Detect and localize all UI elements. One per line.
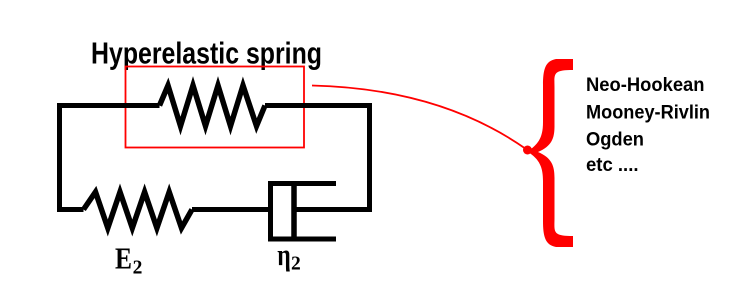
svg-text:E: E (115, 241, 132, 276)
svg-text:2: 2 (133, 257, 143, 278)
svg-text:etc ....: etc .... (586, 154, 639, 176)
svg-text:Mooney-Rivlin: Mooney-Rivlin (586, 101, 710, 123)
svg-text:Neo-Hookean: Neo-Hookean (586, 74, 705, 96)
svg-text:η: η (277, 237, 291, 272)
svg-text:2: 2 (291, 254, 301, 275)
svg-text:Hyperelastic spring: Hyperelastic spring (91, 36, 322, 71)
svg-text:Ogden: Ogden (586, 129, 644, 151)
